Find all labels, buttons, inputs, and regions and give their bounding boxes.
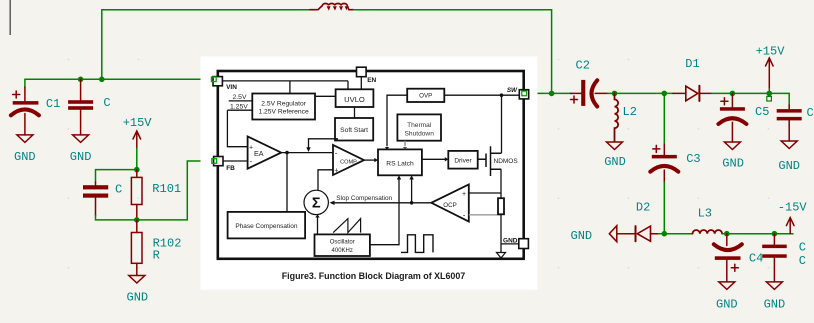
pin EN	[360, 77, 362, 90]
capacitor C (input)	[68, 79, 93, 135]
svg-text:Driver: Driver	[454, 158, 472, 165]
wire EA output	[281, 152, 333, 154]
capacitor C4	[714, 234, 742, 282]
svg-text:GND: GND	[778, 159, 800, 173]
junction R101 top	[134, 167, 140, 173]
resistor sense	[498, 198, 504, 214]
soft start block	[335, 118, 373, 141]
svg-text:+15V: +15V	[756, 44, 786, 58]
svg-text:NDMOS: NDMOS	[494, 158, 519, 165]
op-amp U1 outline XL6007	[218, 71, 524, 259]
svg-text:-: -	[250, 157, 253, 166]
capacitor C bottom right	[762, 234, 787, 282]
junction C4	[724, 231, 730, 237]
junction C3 top	[662, 91, 668, 97]
svg-text:+: +	[334, 168, 338, 175]
svg-text:Phase Compensation: Phase Compensation	[235, 223, 298, 230]
wire thermal shutdown to RS latch	[404, 141, 406, 147]
junction C bottom right	[772, 231, 778, 237]
node marker below +15V junction	[767, 96, 772, 101]
ground C1	[17, 135, 33, 143]
wire D1 to C5	[712, 92, 770, 94]
transistor NDMOS	[478, 146, 502, 176]
svg-text:C2: C2	[576, 58, 590, 72]
svg-text:+: +	[462, 191, 466, 198]
wire RS latch to driver	[422, 158, 445, 160]
wire input rail	[25, 79, 213, 87]
junction +15V node	[767, 91, 773, 97]
svg-text:C4: C4	[749, 251, 763, 265]
inductor L3	[693, 230, 723, 234]
wire slope compensation into sigma	[332, 202, 432, 204]
svg-text:C3: C3	[686, 152, 700, 166]
junction C5	[730, 91, 736, 97]
svg-text:400KHz: 400KHz	[332, 248, 353, 254]
wire oscillator to sigma	[317, 217, 319, 235]
wire 1.25V reference to EA	[227, 110, 247, 147]
ground C4	[719, 282, 735, 290]
junction L2	[612, 91, 618, 97]
wire VIN internal rail	[223, 81, 349, 94]
oscillator block	[315, 234, 370, 256]
XL6007 block diagram figure background	[201, 56, 538, 289]
junction FB node	[134, 217, 140, 223]
wire SW to C2	[527, 92, 572, 94]
junction SW drain	[500, 93, 504, 97]
svg-text:C1: C1	[46, 97, 60, 111]
ground R102	[129, 276, 145, 284]
wire OCP- to sense resistor bottom	[469, 214, 501, 216]
wire OVP to RS latch	[387, 95, 407, 146]
wire FB net	[137, 161, 214, 220]
wire SW to NDMOS drain	[501, 95, 503, 153]
svg-text:GND: GND	[722, 157, 744, 171]
wire top loop left vertical	[102, 10, 314, 80]
capacitor C output top right	[777, 105, 802, 141]
capacitor C1	[11, 87, 39, 135]
ground D2 left	[609, 226, 617, 242]
svg-text:GND: GND	[764, 297, 786, 311]
ground internal	[497, 253, 506, 259]
svg-text:EA: EA	[254, 149, 264, 158]
wire OCP output to RS latch	[411, 179, 413, 203]
svg-text:COMP: COMP	[340, 160, 357, 166]
svg-text:GND: GND	[127, 290, 149, 304]
ground C input	[73, 135, 89, 143]
pin VIN	[213, 77, 222, 86]
ground C5	[724, 142, 740, 150]
svg-text:Σ: Σ	[312, 196, 321, 212]
ground C output top right	[781, 141, 797, 149]
svg-text:EN: EN	[367, 77, 376, 84]
svg-text:L3: L3	[698, 207, 712, 221]
resistor R101	[131, 170, 142, 220]
svg-text:Soft Start: Soft Start	[340, 127, 368, 134]
junction D2 C3	[662, 231, 668, 237]
capacitor C2	[571, 80, 608, 107]
wire GND pin	[501, 243, 519, 245]
svg-text:GND: GND	[503, 238, 518, 245]
OVP block	[407, 89, 444, 102]
power +15V right	[766, 58, 774, 89]
svg-text:2.5V: 2.5V	[233, 94, 247, 101]
wire +15V to R101	[136, 148, 138, 169]
wire +15V junction	[768, 89, 770, 94]
wire OVP to SW	[444, 94, 519, 96]
diode D1	[673, 86, 712, 101]
comparator COMP	[333, 145, 364, 175]
thermal shutdown block	[397, 114, 441, 140]
svg-text:L2: L2	[623, 105, 637, 119]
svg-text:UVLO: UVLO	[344, 95, 365, 104]
pin GND	[519, 239, 529, 249]
svg-text:GND: GND	[14, 150, 36, 164]
wire C3 bottom	[663, 182, 665, 233]
junction EA output	[285, 151, 289, 155]
junction input rail / C	[78, 77, 84, 83]
svg-text:C: C	[799, 254, 806, 268]
capacitor C5	[718, 93, 746, 142]
svg-text:+15V: +15V	[123, 116, 153, 130]
pin SW	[519, 90, 528, 99]
svg-text:GND: GND	[571, 229, 593, 243]
svg-text:1.25V: 1.25V	[230, 104, 248, 111]
op-amp EA	[248, 136, 282, 168]
inductor L1	[310, 3, 354, 10]
regulator block 2.5V / 1.25V reference	[252, 94, 315, 120]
svg-text:D2: D2	[636, 200, 650, 214]
svg-text:R: R	[153, 248, 160, 262]
svg-text:C: C	[115, 182, 122, 196]
comparator OCP	[431, 185, 469, 222]
wire C parallel bottom	[96, 216, 137, 220]
svg-text:-15V: -15V	[778, 201, 808, 215]
svg-text:Thermal: Thermal	[407, 122, 432, 129]
svg-text:GND: GND	[716, 297, 738, 311]
svg-text:C5: C5	[755, 105, 769, 119]
svg-text:D1: D1	[685, 57, 699, 71]
ground C bottom right	[766, 282, 782, 290]
power -15V	[786, 218, 794, 234]
wire NDMOS source chain	[500, 169, 502, 252]
wire C2 to L2 node	[608, 92, 674, 94]
wire sigma to COMP	[318, 170, 333, 191]
summing junction sigma	[304, 190, 328, 214]
wire COMP to RS latch	[364, 159, 375, 161]
wire top loop right	[354, 10, 552, 94]
power +15V left	[133, 131, 141, 148]
junction input rail / top loop	[99, 77, 105, 83]
wire oscillator to RS latch	[370, 179, 399, 245]
resistor R102	[131, 220, 142, 276]
ground L2	[607, 142, 623, 150]
svg-text:Shutdown: Shutdown	[405, 131, 435, 138]
svg-text:Figure3. Function Block Diagra: Figure3. Function Block Diagram of XL600…	[282, 271, 466, 281]
svg-text:VIN: VIN	[226, 84, 237, 91]
wire C parallel top	[96, 170, 137, 183]
svg-text:+: +	[249, 145, 253, 152]
svg-text:RS Latch: RS Latch	[386, 161, 414, 168]
svg-text:2.5V Regulator: 2.5V Regulator	[261, 101, 306, 108]
svg-text:C: C	[799, 240, 806, 254]
UVLO block	[336, 89, 374, 107]
svg-text:GND: GND	[70, 150, 92, 164]
wire regulator to UVLO	[315, 95, 336, 97]
square wave symbol	[401, 235, 433, 253]
junction slope comp / RS latch	[410, 201, 414, 205]
svg-text:Oscillator: Oscillator	[330, 240, 355, 246]
capacitor C3	[650, 144, 678, 182]
svg-text:OVP: OVP	[419, 93, 432, 100]
junction SW / top loop	[549, 91, 555, 97]
pin FB	[223, 160, 248, 162]
svg-text:1.25V Reference: 1.25V Reference	[258, 109, 308, 116]
wire C3 top	[663, 93, 665, 144]
wire OCP+ to sense node	[469, 192, 501, 194]
diode D2	[617, 226, 659, 241]
svg-text:-: -	[463, 211, 466, 220]
svg-text:-: -	[335, 149, 338, 158]
driver block	[448, 151, 477, 169]
svg-text:C: C	[103, 96, 110, 110]
svg-text:R101: R101	[152, 182, 181, 196]
phase compensation block	[228, 212, 306, 239]
node 2.5V output stub	[229, 100, 253, 102]
svg-text:SW: SW	[507, 87, 518, 94]
wire to output cap C	[769, 93, 789, 105]
svg-text:C: C	[807, 106, 814, 120]
wire soft start to EA output	[309, 139, 339, 149]
svg-text:FB: FB	[226, 165, 235, 172]
svg-text:OCP: OCP	[443, 202, 456, 209]
RS latch block	[378, 149, 422, 175]
capacitor C parallel	[83, 182, 108, 216]
node 1.25V output stub	[227, 109, 252, 111]
svg-text:GND: GND	[604, 155, 626, 169]
sawtooth waveform	[333, 219, 360, 233]
wire D2 to L3	[659, 233, 693, 235]
wire EA output to phase compensation	[286, 153, 288, 212]
wire UVLO to soft start	[354, 107, 356, 118]
inductor L2	[615, 93, 619, 141]
wire L3 to -15V	[722, 233, 793, 235]
svg-text:Slop Compensation: Slop Compensation	[336, 195, 392, 202]
